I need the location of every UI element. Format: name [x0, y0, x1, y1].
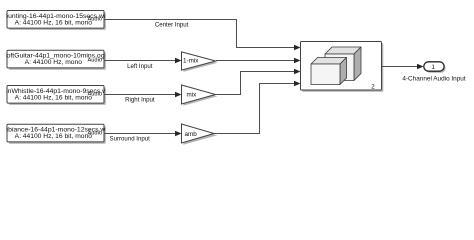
svg-text:A: 44100 Hz, 16 bit, mono: A: 44100 Hz, 16 bit, mono — [15, 94, 93, 101]
svg-text:A: 44100 Hz, 16 bit, mono: A: 44100 Hz, 16 bit, mono — [15, 19, 93, 26]
svg-text:1-mix: 1-mix — [183, 58, 199, 65]
svg-text:Audio: Audio — [87, 17, 102, 23]
svg-text:mix: mix — [187, 92, 198, 99]
svg-text:Center Input: Center Input — [155, 22, 189, 29]
svg-text:Right Input: Right Input — [125, 96, 155, 103]
svg-text:4-Channel Audio Input: 4-Channel Audio Input — [402, 75, 465, 82]
svg-text:A: 44100 Hz, 16 bit, mono: A: 44100 Hz, 16 bit, mono — [15, 133, 93, 140]
svg-text:Surround Input: Surround Input — [110, 135, 151, 142]
svg-text:Audio: Audio — [87, 131, 102, 137]
svg-text:Audio: Audio — [87, 92, 102, 98]
svg-text:amb: amb — [185, 131, 198, 138]
svg-text:A: 44100 Hz, mono: A: 44100 Hz, mono — [25, 59, 83, 66]
svg-text:2: 2 — [371, 84, 375, 91]
svg-text:Left Input: Left Input — [127, 63, 153, 70]
svg-text:Audio: Audio — [87, 58, 102, 64]
